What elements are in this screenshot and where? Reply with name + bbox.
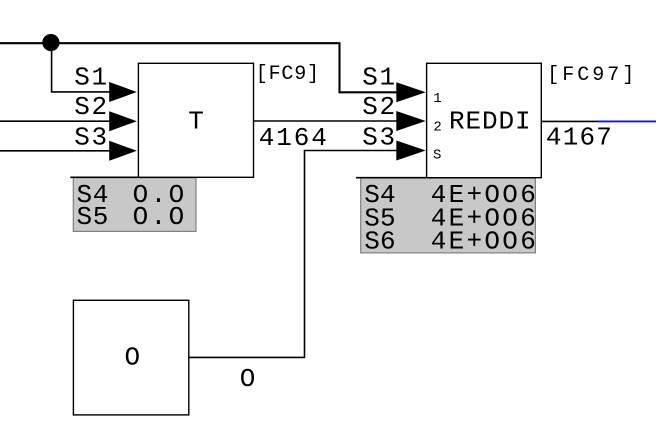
svg-text:4167: 4167 xyxy=(546,123,613,153)
svg-text:S2: S2 xyxy=(74,92,108,122)
svg-text:2: 2 xyxy=(433,120,441,136)
svg-text:S3: S3 xyxy=(362,122,396,152)
svg-text:O: O xyxy=(125,343,141,373)
svg-text:1: 1 xyxy=(433,91,441,107)
svg-text:S1: S1 xyxy=(74,63,108,93)
svg-text:S: S xyxy=(433,147,441,163)
svg-text:S2: S2 xyxy=(362,92,396,122)
svg-text:S3: S3 xyxy=(74,122,108,152)
svg-text:S5: S5 xyxy=(77,202,110,232)
svg-text:[FC97]: [FC97] xyxy=(547,64,637,87)
svg-text:S6: S6 xyxy=(364,226,396,256)
svg-text:O.O: O.O xyxy=(133,202,187,232)
svg-text:[FC9]: [FC9] xyxy=(256,63,320,86)
svg-text:T: T xyxy=(188,107,204,137)
svg-text:4E+OO6: 4E+OO6 xyxy=(431,226,538,256)
svg-text:REDDI: REDDI xyxy=(449,107,532,137)
svg-text:O: O xyxy=(240,364,256,394)
svg-text:4164: 4164 xyxy=(259,123,329,153)
svg-text:S1: S1 xyxy=(362,63,396,93)
